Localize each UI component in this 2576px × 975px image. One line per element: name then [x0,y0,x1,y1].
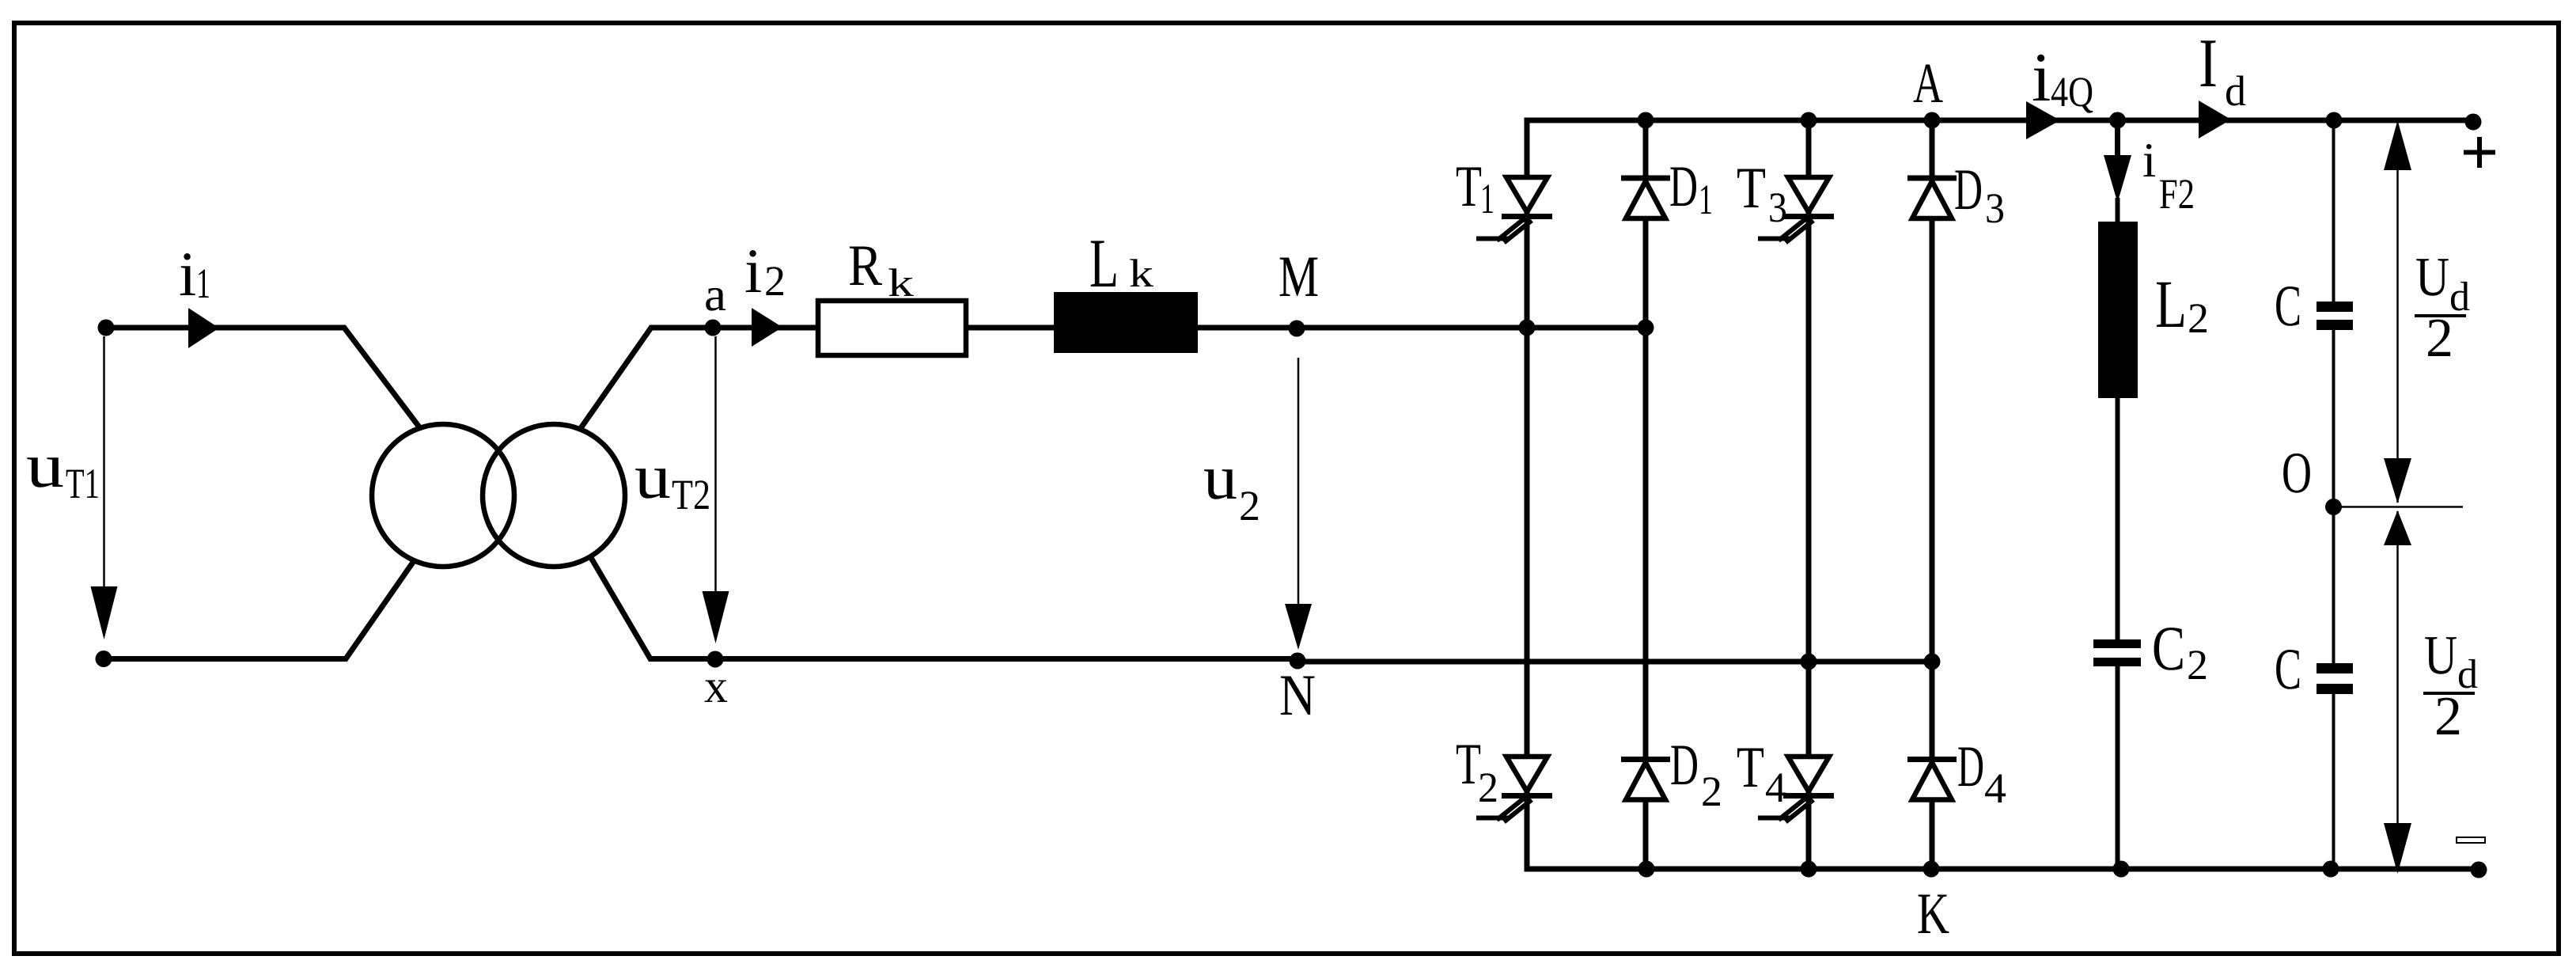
svg-text:2: 2 [1239,482,1260,529]
capacitor C2 [2093,639,2141,648]
node top-left terminal [98,320,115,336]
voltage arrow u2 [1297,358,1300,608]
diode D4 [1907,760,1957,800]
svg-text:R: R [848,233,883,298]
svg-text:1: 1 [196,260,210,307]
svg-text:O: O [2282,441,2312,506]
diode D1 [1621,178,1670,218]
junction top rail / L2 branch [2109,112,2126,129]
svg-text:D: D [1954,157,1983,222]
svg-text:2: 2 [764,257,786,305]
minus terminal node [2471,862,2487,878]
svg-text:D: D [1670,733,1699,798]
thyristor T2 [1476,757,1552,822]
arrow i1 [188,308,219,348]
wire C2 to bottom rail [2116,666,2120,869]
capacitor C lower [2317,663,2353,673]
plus sign [2464,150,2495,155]
svg-text:u: u [26,431,64,501]
arrow Id [2199,101,2231,138]
capacitor C upper [2317,302,2353,312]
node bottom-left terminal [96,651,112,667]
svg-text:A: A [1913,51,1943,115]
svg-text:2: 2 [1478,764,1498,811]
svg-text:U: U [2424,625,2457,686]
svg-text:k: k [888,260,914,305]
wire secondary top to node a [581,328,818,428]
junction rail N / D3 leg [1924,654,1941,670]
svg-text:2: 2 [2434,686,2462,747]
svg-text:i: i [2142,134,2156,188]
junction top rail / D3 leg node A [1924,112,1941,129]
wire top rail node A [1525,118,2474,123]
svg-text:i: i [179,240,196,309]
svg-text:d: d [2225,67,2246,115]
svg-text:C: C [2152,614,2185,684]
dimension arrow Ud/2 upper [2396,127,2399,503]
junction rail N / T3 leg [1801,654,1817,670]
plus terminal node [2465,114,2482,131]
wire filter capacitor branch [2332,120,2335,869]
wire bottom rail node K [1525,867,2479,872]
wire node O tick [2334,506,2464,508]
junction top rail / D1 leg [1638,112,1654,129]
wire bridge leg T1/T2 [1525,120,1530,869]
arrow i4Q [2026,101,2060,139]
inductor L2 [2098,222,2138,398]
minus sign [2457,837,2485,843]
wire rail N to bridge [1297,659,1932,665]
wire Rk to Lk [966,325,1054,331]
thyristor T3 [1758,177,1834,243]
svg-text:k: k [1129,251,1154,295]
svg-text:a: a [704,268,726,321]
svg-text:T2: T2 [672,471,710,518]
junction top rail / capacitor branch [2326,112,2343,129]
transformer primary winding [372,424,514,567]
svg-text:T1: T1 [66,460,100,507]
svg-text:K: K [1917,882,1949,947]
junction rail M / T1 leg [1519,320,1536,336]
junction rail M / D1 leg [1638,320,1654,336]
inductor Lk [1054,292,1198,353]
wire bridge leg D1/D2 [1643,120,1649,869]
svg-text:C: C [2275,274,2301,339]
wire bridge leg D3/D4 [1930,120,1935,869]
svg-text:3: 3 [1985,184,2005,232]
svg-text:3: 3 [1768,184,1787,231]
svg-text:L: L [2155,266,2187,342]
svg-text:2: 2 [2426,308,2453,369]
arrow i2 [752,308,782,347]
node O [2325,499,2342,515]
node a [705,320,722,336]
svg-text:I: I [2199,25,2218,102]
svg-text:M: M [1279,245,1319,309]
current arrow iF2 [2115,120,2120,158]
svg-text:U: U [2415,247,2449,308]
thyristor T4 [1758,757,1834,822]
junction bottom rail / C2 branch [2113,861,2130,878]
resistor Rk [818,301,966,355]
wire arrow to L2 [2116,198,2120,222]
diode D3 [1907,178,1957,218]
svg-text:2: 2 [2187,641,2208,689]
svg-text:D: D [1957,734,1984,799]
thyristor T1 [1476,177,1552,243]
svg-text:x: x [704,660,728,712]
svg-text:i: i [2032,40,2051,116]
svg-text:T: T [1737,735,1764,800]
svg-text:T: T [1737,156,1766,221]
node N [1290,653,1306,670]
svg-text:D: D [1669,154,1698,219]
wire top-left to transformer [106,328,420,428]
wire bottom-left to transformer [104,561,414,659]
svg-text:N: N [1279,663,1316,728]
wire bridge leg T3/T4 [1806,120,1812,869]
junction bottom rail / T4 leg [1801,861,1817,878]
wire Lk to bridge rail M [1198,325,1646,331]
diode D2 [1621,760,1670,800]
svg-text:4: 4 [1984,764,2006,812]
svg-text:F2: F2 [2159,170,2195,218]
svg-text:i: i [744,237,762,306]
voltage arrow uT2 [714,336,717,595]
svg-text:C: C [2275,637,2301,702]
svg-text:2: 2 [1701,768,1722,815]
svg-text:1: 1 [1699,176,1713,223]
svg-text:L: L [1089,226,1119,302]
svg-text:T: T [1456,154,1482,219]
svg-text:4: 4 [1765,764,1786,811]
svg-text:u: u [1203,443,1237,513]
junction bottom rail / capacitor branch [2323,861,2339,878]
svg-text:4Q: 4Q [2051,68,2093,116]
wire secondary bottom to node x and N [590,556,1297,659]
junction bottom rail / D4 leg [1923,861,1940,878]
transformer secondary winding [483,424,625,567]
voltage arrow uT1 [103,336,105,590]
node M [1289,321,1305,337]
svg-text:1: 1 [1480,175,1494,222]
dimension arrow Ud/2 lower [2396,511,2399,863]
wire L2 to C2 [2116,398,2120,639]
node x [707,651,724,668]
junction bottom rail / D2 leg [1638,861,1655,878]
svg-text:2: 2 [2188,294,2209,342]
junction top rail / T3 leg [1801,112,1817,129]
svg-text:u: u [635,442,671,512]
